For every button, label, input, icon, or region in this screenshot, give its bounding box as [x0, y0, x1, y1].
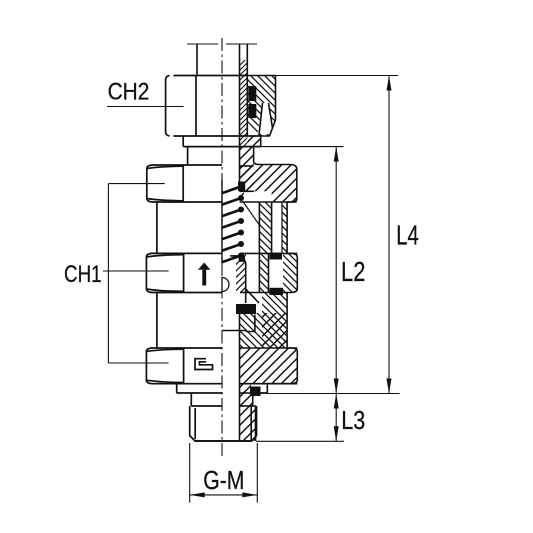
svg-text:CH2: CH2	[108, 78, 150, 105]
svg-text:L3: L3	[341, 405, 365, 435]
svg-text:G-M: G-M	[203, 467, 244, 495]
svg-text:L2: L2	[341, 256, 365, 287]
svg-text:CH1: CH1	[64, 261, 102, 288]
svg-text:L4: L4	[396, 219, 419, 250]
